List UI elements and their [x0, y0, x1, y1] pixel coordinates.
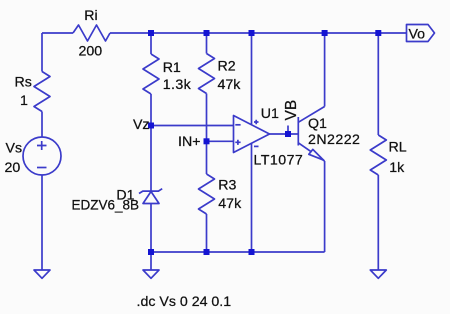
- svg-text:20: 20: [5, 160, 21, 176]
- junction node IN+: [204, 138, 210, 144]
- wire RL branch top: [377, 33, 379, 135]
- wire Rs to Vs: [41, 112, 43, 138]
- ground (right, RL): [370, 270, 386, 278]
- port flag Vo: [407, 25, 435, 42]
- svg-text:RL: RL: [389, 140, 407, 156]
- Vs minus mark: [37, 167, 47, 169]
- wire bottom rail to middle ground: [150, 252, 152, 270]
- svg-text:U1: U1: [261, 106, 279, 122]
- transistor Q1 emitter diagonal: [298, 143, 324, 161]
- junction top rail RL: [375, 30, 381, 36]
- wire VB label stub: [287, 126, 289, 135]
- svg-text:Rs: Rs: [15, 75, 32, 91]
- voltage source Vs circle: [23, 137, 61, 175]
- svg-text:1k: 1k: [389, 160, 405, 176]
- resistor R2: [199, 54, 215, 94]
- junction node VB: [285, 131, 291, 137]
- junction top rail op-amp power: [249, 30, 255, 36]
- op-amp U1 triangle: [234, 116, 270, 153]
- svg-text:Vo: Vo: [409, 27, 426, 43]
- transistor Q1 collector diagonal: [298, 107, 324, 123]
- op-amp inverting input minus mark: [235, 124, 240, 126]
- ground (left, Vs): [34, 270, 50, 278]
- wire D1 to bottom rail: [150, 204, 152, 253]
- svg-text:IN+: IN+: [178, 134, 200, 150]
- svg-text:Vs: Vs: [6, 141, 23, 157]
- op-amp top power plus mark: [254, 120, 259, 124]
- wire Vz to op-amp inverting input: [151, 125, 234, 127]
- junction top rail R2: [204, 30, 210, 36]
- ground (middle): [143, 270, 159, 278]
- svg-text:R3: R3: [218, 178, 236, 194]
- junction bottom rail R3: [204, 249, 210, 255]
- wire R1 to Vz node: [150, 94, 152, 126]
- svg-text:VB: VB: [283, 100, 300, 121]
- wire IN+ node down to R3: [206, 141, 208, 174]
- svg-text:EDZV6_8B: EDZV6_8B: [71, 198, 139, 213]
- resistor Ri: [73, 25, 110, 41]
- wire R1 branch top: [150, 33, 152, 54]
- transistor Q1 emitter arrow: [309, 149, 324, 160]
- wire R2 to IN+ node: [206, 94, 208, 142]
- svg-text:2N2222: 2N2222: [308, 132, 360, 148]
- svg-text:Ri: Ri: [84, 8, 97, 24]
- wire Q1 emitter to bottom rail: [324, 161, 326, 252]
- Vs plus mark: [37, 141, 47, 150]
- svg-text:200: 200: [78, 44, 102, 60]
- wire Q1 collector to top rail: [324, 33, 326, 107]
- svg-text:LT1077: LT1077: [254, 153, 304, 169]
- junction bottom rail D1: [148, 249, 154, 255]
- wire IN+ to op-amp non-inverting input: [207, 140, 234, 142]
- op-amp non-inverting input plus mark: [235, 140, 240, 145]
- resistor Rs: [34, 72, 50, 112]
- wire bottom rail: [151, 251, 325, 253]
- wire op-amp output to Q1 base: [270, 133, 299, 135]
- svg-text:47k: 47k: [218, 196, 242, 212]
- junction node Vz: [148, 123, 154, 129]
- transistor Q1 base bar: [297, 117, 299, 146]
- wire R2 branch top: [206, 33, 208, 54]
- resistor RL: [370, 135, 386, 175]
- svg-text:47k: 47k: [218, 77, 242, 93]
- wire left branch vertical: [41, 33, 43, 72]
- junction bottom rail op-amp power: [249, 249, 255, 255]
- svg-text:R1: R1: [163, 60, 181, 76]
- op-amp bottom power minus mark: [254, 145, 259, 147]
- svg-text:R2: R2: [218, 59, 236, 75]
- svg-text:.dc Vs 0 24 0.1: .dc Vs 0 24 0.1: [137, 294, 232, 310]
- op-amp bottom power pin wire: [251, 143, 253, 252]
- svg-text:Vz: Vz: [133, 117, 150, 133]
- wire Vs to ground: [41, 175, 43, 270]
- wire RL to ground: [377, 175, 379, 270]
- wire top-left corner to Ri: [42, 32, 73, 34]
- svg-text:1.3k: 1.3k: [163, 77, 192, 93]
- resistor R3: [199, 174, 215, 214]
- resistor R1: [143, 54, 159, 94]
- junction top rail Q1 collector: [322, 30, 328, 36]
- wire Vz node to D1: [150, 126, 152, 192]
- wire R3 to bottom rail: [206, 214, 208, 252]
- junction top rail R1: [148, 30, 154, 36]
- wire top rail Ri to Vo: [110, 32, 407, 34]
- zener diode D1: [139, 189, 162, 204]
- svg-text:1: 1: [20, 93, 28, 109]
- svg-text:Q1: Q1: [308, 116, 327, 132]
- op-amp top power pin wire: [251, 33, 253, 125]
